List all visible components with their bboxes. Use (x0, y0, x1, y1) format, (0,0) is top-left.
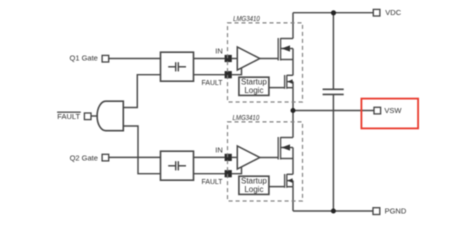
svg-text:VSW: VSW (384, 106, 402, 115)
svg-text:FAULT: FAULT (202, 78, 223, 87)
svg-text:FAULT: FAULT (57, 112, 80, 121)
svg-text:FAULT: FAULT (202, 177, 223, 186)
svg-text:Logic: Logic (244, 86, 263, 95)
svg-text:VDC: VDC (385, 8, 401, 17)
svg-text:PGND: PGND (385, 207, 407, 216)
svg-text:LMG3410: LMG3410 (233, 113, 260, 122)
svg-text:Logic: Logic (244, 185, 263, 194)
svg-text:Q1 Gate: Q1 Gate (70, 54, 98, 63)
svg-text:Q2 Gate: Q2 Gate (70, 153, 98, 162)
svg-text:LMG3410: LMG3410 (233, 14, 260, 23)
svg-text:IN: IN (215, 47, 223, 56)
svg-text:IN: IN (215, 146, 223, 155)
